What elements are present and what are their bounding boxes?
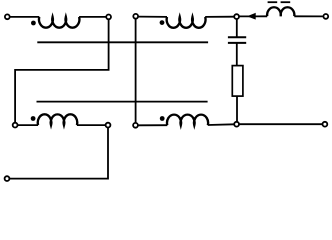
- inductor L4 (bottom-middle winding, 3 loops up): [167, 115, 208, 126]
- wire N6 down to capacitor: [236, 19, 238, 37]
- wire L1 to node N1: [79, 16, 106, 18]
- node N2: [13, 123, 18, 128]
- dot polarity mark of L1: [31, 21, 36, 26]
- core dash 2 of L5: [281, 1, 291, 3]
- arrow (current direction, pointing left): [247, 13, 256, 20]
- wire N5 to L4: [138, 124, 167, 126]
- inductor L2 (top-middle winding, 3 loops down): [167, 17, 206, 28]
- node N7: [234, 122, 239, 127]
- node N3: [106, 123, 111, 128]
- terminal T1 (top-left input): [5, 14, 10, 19]
- node N5 (bottom-middle): [133, 123, 138, 128]
- inductor L5 (top-right, 2 loops up): [267, 7, 294, 16]
- terminal T2 (bottom-left): [5, 176, 10, 181]
- wire N7 to T4: [240, 123, 323, 125]
- wire N3 down and left to T2: [10, 128, 108, 179]
- core bar 2 (lower transformer core): [37, 101, 208, 103]
- core dash 1 of L5: [268, 1, 278, 3]
- wire L4 to node N7: [208, 123, 234, 126]
- terminal T3 (top-right): [323, 14, 328, 19]
- dot polarity mark of L4: [160, 116, 165, 121]
- inductor L3 (bottom-left winding, 3 loops up): [38, 114, 77, 125]
- capacitor C top plate: [228, 36, 246, 38]
- dot polarity mark of L2: [160, 20, 165, 25]
- wire L5 to T3: [294, 15, 323, 17]
- wire L2 to node N6: [205, 16, 234, 18]
- node N4 (top-middle): [133, 14, 138, 19]
- wire N6 to arrow: [239, 15, 267, 17]
- capacitor C bottom plate: [228, 42, 246, 44]
- core bar 1 (upper transformer core): [37, 41, 208, 43]
- wire T1 to L1: [10, 16, 39, 18]
- resistor R (box): [232, 66, 243, 97]
- wire N4 to L2: [138, 16, 167, 18]
- wire L3 to node N3: [77, 124, 105, 126]
- wire resistor to N7: [236, 96, 238, 121]
- wire capacitor to resistor: [236, 43, 238, 66]
- node N6: [234, 14, 239, 19]
- wire N2 to L3: [18, 124, 38, 126]
- wire N4 down to N5: [135, 19, 137, 122]
- inductor L1 (top-left winding, 3 loops down): [39, 17, 79, 28]
- node N1: [106, 15, 111, 20]
- dot polarity mark of L3: [31, 116, 36, 121]
- terminal T4 (bottom-right): [323, 122, 328, 127]
- wire N1 down, jog left, down to N2: [15, 20, 109, 123]
